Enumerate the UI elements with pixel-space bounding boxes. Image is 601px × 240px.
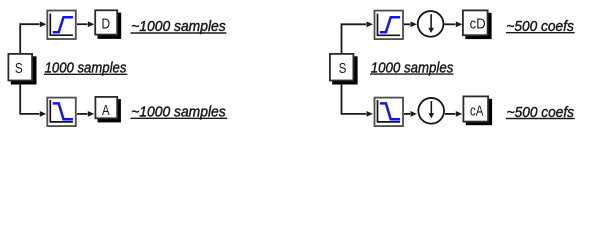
wire: right source S to high-pass branch (up and right)	[342, 21, 373, 54]
svg-text:cA: cA	[470, 104, 484, 120]
label: 1000 samples (left)	[44, 61, 127, 77]
label: 1000 samples (right)	[370, 60, 454, 76]
wire: right low-pass filter to downsampler (bottom)	[404, 111, 417, 117]
block cA (approximation coefficients)	[463, 96, 492, 125]
label: ~1000 samples (bottom left)	[131, 105, 228, 121]
low-pass filter icon (left bottom)	[47, 98, 76, 127]
downsampler circle (bottom)	[418, 98, 444, 124]
svg-text:S: S	[339, 61, 347, 77]
svg-text:D: D	[102, 16, 111, 32]
label: ~500 coefs (bottom right)	[506, 105, 575, 121]
high-pass filter icon (left top)	[47, 11, 76, 40]
label: ~500 coefs (top right)	[506, 19, 575, 35]
wire: right high-pass filter to downsampler (top)	[404, 21, 417, 27]
downsampler circle (top)	[418, 11, 444, 37]
block A (approximation)	[95, 97, 120, 122]
high-pass filter icon (right top)	[375, 11, 404, 39]
svg-text:S: S	[15, 61, 23, 77]
source block S (left)	[8, 54, 36, 85]
wire: left source S to high-pass branch (up and right)	[20, 21, 46, 54]
wire: left high-pass filter to block D	[77, 21, 94, 27]
block D (detail)	[95, 10, 121, 39]
label: ~1000 samples (top left)	[131, 19, 227, 35]
svg-text:A: A	[102, 103, 110, 119]
wire: right source S to low-pass branch (down and right)	[342, 81, 373, 117]
wire: bottom downsampler to block cA	[445, 111, 462, 117]
low-pass filter icon (right bottom)	[375, 98, 404, 127]
block cD (detail coefficients)	[463, 10, 492, 39]
source block S (right)	[330, 54, 358, 85]
svg-text:cD: cD	[470, 17, 486, 33]
wire: top downsampler to block cD	[444, 21, 462, 27]
wire: left low-pass filter to block A	[77, 111, 94, 117]
wire: left source S to low-pass branch (down and right)	[20, 81, 46, 117]
